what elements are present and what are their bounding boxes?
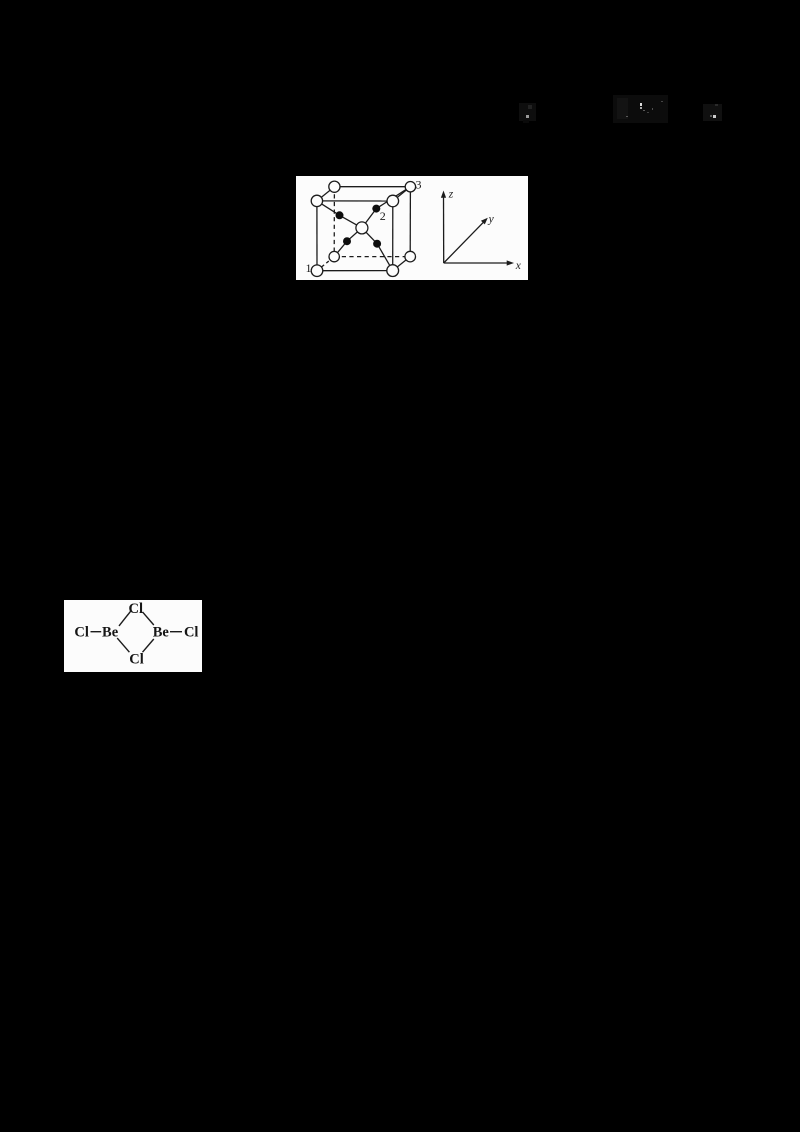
wire: front face left edge [316, 201, 318, 271]
atom: front top-left corner [311, 195, 322, 206]
faint residual text cluster A [519, 103, 536, 121]
bond Be(left)-Cl(top) bridge [119, 611, 131, 626]
wire: top-left connector edge [317, 187, 335, 201]
atom 1: front bottom-left corner [311, 265, 323, 277]
wire: bottom-right connector edge [393, 257, 411, 271]
arrowhead z [441, 191, 446, 198]
wire: back face top edge [334, 186, 410, 188]
wire: top-right connector edge [393, 187, 411, 201]
faint residual text cluster C [703, 104, 722, 121]
wire: back face bottom edge dashed [334, 256, 410, 258]
atom: front bottom-right corner [387, 265, 399, 277]
figure 2: BeCl2 bridged dimer [64, 600, 202, 672]
bond: corner 1 side to center via upper-left site [317, 201, 362, 228]
svg-text:Cl: Cl [129, 651, 144, 667]
wire: back face right edge [409, 187, 411, 257]
svg-text:3: 3 [416, 177, 422, 191]
axis y [444, 220, 486, 263]
bond Cl(top)-Be(right) bridge [143, 612, 154, 625]
wire: back face left edge dashed [333, 187, 335, 257]
svg-text:Cl: Cl [129, 601, 144, 617]
svg-text:Be: Be [102, 624, 119, 640]
wire: bottom-left connector edge dashed [317, 257, 334, 271]
bond: center to corner 3 via site 2 [362, 187, 411, 228]
axis z [443, 195, 445, 263]
site atom upper-left (filled) [336, 211, 344, 219]
svg-text:1: 1 [306, 261, 312, 275]
bond: center to front-bottom-right via lower-right site [362, 228, 393, 271]
arrowhead x [507, 260, 514, 265]
atom 3: back top-right corner [405, 182, 415, 192]
axis x [444, 262, 511, 264]
bond Cl(bottom)-Be(right) bridge [143, 639, 154, 652]
site atom 2 (filled) [372, 205, 380, 213]
atom: body center [356, 222, 368, 234]
bond Be-Cl right terminal [170, 631, 182, 633]
svg-text:2: 2 [380, 209, 386, 223]
svg-text:z: z [448, 189, 454, 201]
wire: front face bottom edge [317, 270, 393, 272]
wire: front face top edge [317, 200, 393, 202]
atom: back bottom-left corner [329, 251, 339, 261]
bond Be(left)-Cl(bottom) bridge [117, 638, 129, 652]
arrowhead y [481, 218, 488, 225]
bond: center to back-bottom-left via lower-left site [334, 228, 362, 257]
site atom lower-left (filled) [343, 237, 351, 245]
svg-text:Be: Be [153, 624, 170, 640]
atom: front top-right corner [387, 195, 399, 207]
wire: front face right edge [392, 201, 394, 271]
atom: back top-left corner [329, 181, 340, 192]
atom: back bottom-right corner [405, 251, 416, 262]
svg-text:Cl: Cl [184, 624, 199, 640]
svg-text:x: x [515, 260, 522, 272]
svg-text:Cl: Cl [74, 624, 89, 640]
faint residual text cluster B [613, 95, 668, 123]
site atom lower-right (filled) [373, 240, 381, 248]
bond Cl-Be left terminal [91, 631, 102, 633]
svg-text:y: y [488, 213, 495, 225]
figure 1: diamond-structure unit cell with axes [296, 176, 528, 280]
